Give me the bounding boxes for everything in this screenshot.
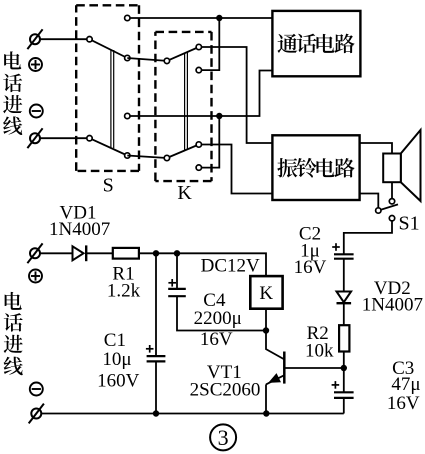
wire: S1 arm [378, 204, 398, 210]
relay contacts K dashed box [155, 32, 211, 181]
S switch contacts [87, 15, 130, 158]
wire: VD1 to R1 [86, 252, 113, 254]
junction node (middle line) [216, 113, 222, 119]
K switch contacts [164, 44, 201, 170]
wire: C1 to ground rail [155, 361, 157, 413]
speaker BL [383, 130, 420, 201]
wire: S contact to K common (lower) [127, 156, 167, 159]
svg-text:16V: 16V [387, 393, 420, 414]
svg-text:K: K [177, 182, 192, 204]
wire: K NO contact to ring circuit (top) [199, 47, 273, 143]
junction node (C1 bottom) [153, 410, 159, 416]
wire: K arm bottom [167, 145, 199, 159]
wire: C4 to relay coil node [177, 296, 266, 330]
junction node (C4 top) [174, 250, 180, 256]
wire: R2 to base node [343, 352, 345, 369]
wire: S1 to C2 [344, 218, 392, 254]
junction node (C1 top) [153, 250, 159, 256]
hook-switch S dashed box [76, 5, 139, 171]
wire: S contact to K common (upper) [127, 58, 167, 61]
S mechanical linkage [111, 50, 114, 148]
svg-text:DC12V: DC12V [201, 255, 260, 276]
svg-text:1N4007: 1N4007 [362, 295, 423, 316]
polarity mark - (top) [30, 105, 43, 118]
wire: S arm bottom [90, 138, 128, 155]
wire: node to VT1 collector [266, 331, 284, 360]
wire: C3 to ground rail [343, 398, 345, 414]
wire: bottom ground rail [41, 413, 344, 415]
capacitor C3 [334, 392, 354, 398]
svg-text:47μ: 47μ [391, 374, 420, 395]
svg-text:1N4007: 1N4007 [49, 219, 110, 240]
svg-text:C1: C1 [104, 330, 126, 351]
capacitor C2 [334, 254, 354, 258]
wire: ring circuit to speaker [360, 143, 392, 154]
svg-text:16V: 16V [200, 329, 233, 350]
wire: VT1 base to R2 node [284, 367, 344, 369]
wire: K NC contact to top line [199, 18, 220, 70]
svg-text:16V: 16V [294, 257, 327, 278]
diode VD2 [337, 292, 352, 304]
wire: K NC contact to middle line [199, 116, 220, 168]
wire: K NO contact to ring circuit (bottom) [199, 145, 273, 194]
label 电话进线 (top, vertical) [3, 51, 22, 135]
label 振铃电路 [277, 158, 354, 178]
svg-text:1.2k: 1.2k [107, 280, 141, 301]
terminal: phone line in (top +) [27, 29, 42, 49]
wire: K arm top [167, 47, 199, 61]
svg-text:10μ: 10μ [102, 349, 131, 370]
svg-text:S: S [103, 175, 114, 197]
svg-text:2SC2060: 2SC2060 [190, 380, 261, 401]
diode VD1 [73, 245, 87, 261]
ring circuit box [272, 135, 359, 200]
svg-text:K: K [259, 283, 273, 304]
transistor VT1 [266, 352, 284, 385]
wire: S arm top [90, 39, 128, 58]
wire: VD2 to R2 [343, 303, 345, 325]
junction node (coil/C4/collector) [263, 327, 269, 333]
polarity mark - (bottom) [30, 383, 43, 396]
svg-text:160V: 160V [97, 371, 140, 392]
wire: relay coil to collector node [265, 309, 267, 330]
junction node (base/R2/C3) [341, 365, 347, 371]
figure number 3 [210, 424, 236, 450]
resistor R1 [113, 248, 139, 259]
talk circuit box [272, 11, 360, 76]
wire: node to C3 [343, 368, 345, 392]
svg-text:10k: 10k [305, 340, 334, 361]
relay coil K box [250, 276, 282, 309]
wire: ring circuit to S1 pivot [360, 194, 379, 211]
terminal: phone line in (top -) [27, 128, 42, 148]
svg-text:3: 3 [218, 425, 229, 450]
junction node (top line) [216, 15, 222, 21]
wire: C2 to VD2 [343, 259, 345, 292]
label 电话进线 (bottom, vertical) [4, 292, 23, 375]
polarity mark + (top) [29, 58, 42, 71]
capacitor C1 [147, 356, 166, 361]
wire: node to C4 [176, 253, 178, 289]
terminal: phone line in (bottom +) [27, 243, 42, 263]
capacitor C4 [168, 289, 186, 296]
svg-text:S1: S1 [399, 213, 420, 235]
wire: + terminal to VD1 [40, 252, 73, 254]
wire: + terminal to S common [40, 38, 90, 40]
wire: - terminal to S common [40, 137, 90, 139]
label 通话电路 [277, 34, 354, 54]
wire: S top contact to talk circuit [130, 17, 273, 19]
terminal: phone line in (bottom -) [29, 404, 44, 424]
wire: R1 to DC12V node [139, 253, 266, 276]
S1 switch contacts [376, 199, 395, 221]
resistor R2 [339, 325, 349, 351]
polarity mark + (bottom) [29, 270, 42, 283]
junction node (emitter bottom) [263, 410, 269, 416]
wire: speaker to S1 [391, 182, 393, 201]
svg-text:2200μ: 2200μ [194, 308, 242, 329]
wire: VT1 emitter to ground rail [265, 384, 267, 413]
wire: node to C1 [155, 253, 157, 356]
K mechanical linkage [185, 53, 188, 151]
wire: S middle contact to talk circuit [130, 71, 273, 117]
